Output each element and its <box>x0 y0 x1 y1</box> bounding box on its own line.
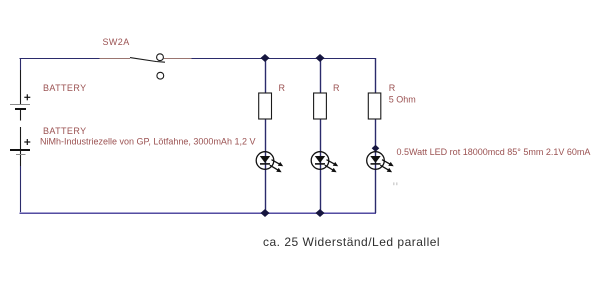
svg-text:R: R <box>279 83 286 93</box>
svg-text:NiMh-Industriezelle von GP, Lö: NiMh-Industriezelle von GP, Lötfahne, 30… <box>40 137 255 147</box>
svg-text:R: R <box>333 83 340 93</box>
svg-text:5 Ohm: 5 Ohm <box>389 95 416 105</box>
svg-text:R: R <box>389 83 396 93</box>
svg-text:0.5Watt LED rot 18000mcd 85° 5: 0.5Watt LED rot 18000mcd 85° 5mm 2.1V 60… <box>397 147 591 157</box>
svg-text:ca. 25 Widerständ/Led parallel: ca. 25 Widerständ/Led parallel <box>263 235 440 249</box>
svg-text:SW2A: SW2A <box>103 37 130 47</box>
svg-text:BATTERY: BATTERY <box>43 126 86 136</box>
svg-text:BATTERY: BATTERY <box>43 83 86 93</box>
